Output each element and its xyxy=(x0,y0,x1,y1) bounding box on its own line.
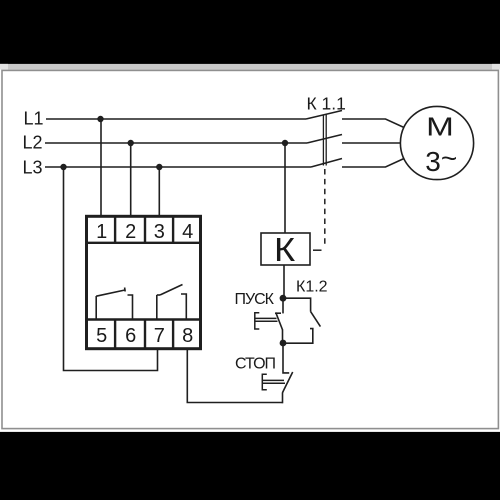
svg-text:3: 3 xyxy=(154,221,165,243)
svg-text:8: 8 xyxy=(182,325,193,347)
svg-text:К: К xyxy=(274,232,295,268)
svg-text:4: 4 xyxy=(182,221,193,243)
svg-text:7: 7 xyxy=(154,325,165,347)
svg-text:К 1.1: К 1.1 xyxy=(307,94,346,114)
svg-text:1: 1 xyxy=(96,221,107,243)
svg-text:ПУСК: ПУСК xyxy=(234,291,274,308)
svg-text:2: 2 xyxy=(125,221,136,243)
svg-text:3: 3 xyxy=(425,146,441,177)
svg-text:5: 5 xyxy=(96,325,107,347)
svg-text:СТОП: СТОП xyxy=(235,356,276,373)
svg-text:L1: L1 xyxy=(24,109,44,129)
svg-text:М: М xyxy=(426,113,454,142)
svg-text:L3: L3 xyxy=(23,158,43,178)
svg-text:~: ~ xyxy=(441,143,457,174)
svg-text:К1.2: К1.2 xyxy=(296,279,328,296)
svg-text:L2: L2 xyxy=(23,133,43,153)
svg-text:6: 6 xyxy=(125,325,136,347)
